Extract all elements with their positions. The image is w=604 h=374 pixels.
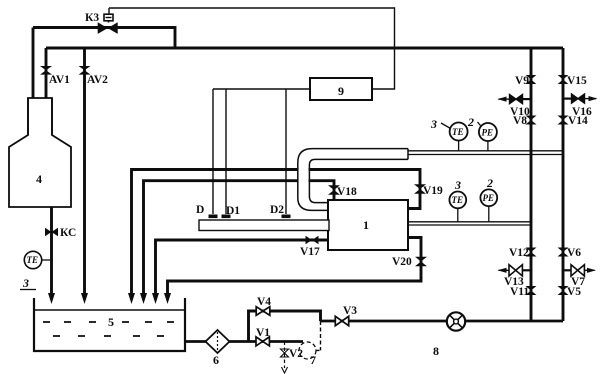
valve V2 dashed drain xyxy=(281,349,289,357)
svg-text:V11: V11 xyxy=(510,286,529,298)
svg-text:V19: V19 xyxy=(423,185,443,197)
valve AV2 xyxy=(79,66,91,75)
tube test section (white filled over lines) xyxy=(304,154,409,207)
svg-text:ТЕ: ТЕ xyxy=(27,255,39,265)
wire pump discharge dashed xyxy=(316,321,322,350)
valve V5 xyxy=(558,286,569,295)
svg-text:4: 4 xyxy=(36,172,42,186)
svg-text:D1: D1 xyxy=(226,205,240,217)
svg-text:6: 6 xyxy=(213,353,219,367)
valve V4 outline xyxy=(256,307,270,316)
wire V13 vent branch xyxy=(521,269,531,271)
valve V15 xyxy=(558,75,569,84)
svg-text:V6: V6 xyxy=(567,247,581,259)
gauge TE lower xyxy=(457,208,459,222)
svg-text:8: 8 xyxy=(433,344,439,358)
svg-text:ТЕ: ТЕ xyxy=(452,195,464,205)
filter 6 xyxy=(206,330,230,353)
svg-text:3: 3 xyxy=(22,276,29,290)
svg-text:К3: К3 xyxy=(85,12,99,24)
valve V3 outline xyxy=(335,316,348,325)
svg-text:D2: D2 xyxy=(270,204,284,216)
valve V11 xyxy=(526,286,537,295)
pointer line label 3 upper xyxy=(441,123,451,129)
svg-text:V2: V2 xyxy=(289,348,303,360)
wire filter to V1 xyxy=(228,340,303,343)
valve V13 vent with arrow xyxy=(509,265,522,276)
valve V19 xyxy=(414,184,426,194)
meter 8 xyxy=(447,312,465,330)
svg-text:V9: V9 xyxy=(515,75,529,87)
svg-text:2: 2 xyxy=(467,115,474,129)
pump 7 dashed xyxy=(299,342,316,359)
wire V3 line to columns xyxy=(321,320,564,323)
gauge PE lower xyxy=(488,206,490,222)
valve V8 xyxy=(526,116,537,125)
box 9 xyxy=(310,78,372,100)
wire left drop into vessel 4 neck xyxy=(32,28,35,99)
svg-text:AV2: AV2 xyxy=(87,74,108,86)
bar sample plate xyxy=(199,220,329,231)
valve V17 xyxy=(306,236,319,245)
svg-text:КС: КС xyxy=(60,227,76,239)
svg-text:5: 5 xyxy=(108,315,114,329)
svg-text:РЕ: РЕ xyxy=(482,128,494,138)
tank 5 xyxy=(34,298,185,351)
vessel 4 xyxy=(9,98,71,207)
wire KC line vessel4 to tank xyxy=(50,207,53,295)
wire K3 supply top line xyxy=(33,28,175,49)
wire L3 tank to V17 into box1 left xyxy=(156,240,329,295)
wire signal line from K3 actuator to box 9 xyxy=(109,8,395,89)
svg-text:V8: V8 xyxy=(513,115,527,127)
wire V4 bypass riser xyxy=(249,311,321,342)
gauge TE upper xyxy=(458,141,460,151)
valve KC xyxy=(45,228,58,237)
svg-text:3: 3 xyxy=(430,117,437,131)
valve V18 xyxy=(328,185,340,195)
wire AV1 drop xyxy=(45,48,48,98)
pipe upper double line to column B xyxy=(408,151,563,155)
svg-text:3: 3 xyxy=(454,178,461,192)
gauge PE upper xyxy=(487,141,489,151)
svg-text:V4: V4 xyxy=(257,296,271,308)
svg-text:D: D xyxy=(196,204,204,216)
wire V2 drain dashed xyxy=(284,342,286,369)
svg-text:V12: V12 xyxy=(509,247,529,259)
svg-text:V3: V3 xyxy=(343,305,357,317)
wire main supply header y=48 xyxy=(46,47,563,50)
valve V6 xyxy=(558,248,569,257)
svg-text:V5: V5 xyxy=(567,286,581,298)
tank liquid dashes xyxy=(43,322,174,336)
valve V10 vent with arrow xyxy=(510,95,523,104)
wire AV2 drop to tank xyxy=(83,48,86,295)
wire L1 tank to V19 into box1 right xyxy=(132,170,421,296)
node arrowheads into tank xyxy=(48,293,171,304)
box 1 xyxy=(328,200,408,250)
svg-text:7: 7 xyxy=(310,353,316,367)
wire right column B x=563 xyxy=(562,48,565,321)
sensor lines D D1 D2 to box 9 xyxy=(213,89,310,214)
svg-text:9: 9 xyxy=(338,84,344,98)
svg-text:РЕ: РЕ xyxy=(483,193,495,203)
svg-text:AV1: AV1 xyxy=(49,74,70,86)
svg-text:V14: V14 xyxy=(568,115,588,127)
valve V20 xyxy=(415,257,427,267)
svg-text:2: 2 xyxy=(486,176,493,190)
valve K3 with actuator xyxy=(98,22,118,34)
pointer line label 2 upper xyxy=(478,122,481,126)
svg-text:V17: V17 xyxy=(300,246,320,258)
valve V7 vent with arrow xyxy=(571,265,584,276)
svg-text:V15: V15 xyxy=(567,75,587,87)
sensor pad D xyxy=(209,215,291,219)
svg-text:V1: V1 xyxy=(256,327,270,339)
svg-text:ТЕ: ТЕ xyxy=(452,127,464,137)
svg-text:1: 1 xyxy=(363,218,369,232)
svg-text:V18: V18 xyxy=(337,186,357,198)
wire L2 tank to V18 into box1 top xyxy=(144,181,335,295)
pipe lower double line box1 to column A xyxy=(408,222,531,225)
valve V14 xyxy=(558,116,569,125)
wire V16 vent branch xyxy=(563,97,573,99)
valve V16 vent with arrow xyxy=(572,94,585,103)
gauge TE left xyxy=(42,259,52,261)
wire V10 vent branch xyxy=(521,98,531,100)
valve V12 xyxy=(526,248,537,257)
wire bottom line tank outlet to filter xyxy=(185,340,207,343)
wire right column A x=531 xyxy=(530,48,533,321)
underline label 3 left xyxy=(20,289,36,291)
tank level line xyxy=(34,309,185,311)
valve AV1 xyxy=(40,66,52,75)
valve V9 xyxy=(526,75,537,84)
valve V1 outline xyxy=(256,337,269,346)
svg-text:V20: V20 xyxy=(392,256,412,268)
wire L4 box1 bottom via V20 to tank xyxy=(168,238,422,296)
wire V7 vent branch xyxy=(563,269,573,271)
